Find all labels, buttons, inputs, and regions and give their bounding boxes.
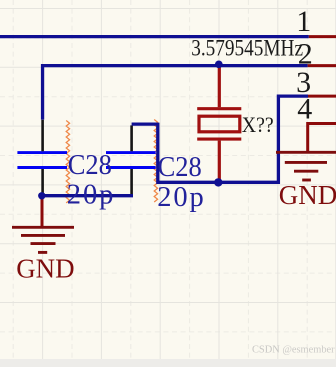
- svg-text:C28: C28: [158, 150, 202, 182]
- svg-text:GND: GND: [16, 253, 74, 283]
- svg-text:3.579545MHz: 3.579545MHz: [191, 35, 303, 61]
- svg-text:20p: 20p: [157, 182, 205, 213]
- svg-text:GND: GND: [279, 180, 336, 210]
- svg-text:X??: X??: [242, 112, 274, 137]
- svg-text:C28: C28: [68, 148, 112, 180]
- svg-text:CSDN @esmember: CSDN @esmember: [252, 345, 335, 356]
- svg-text:20p: 20p: [67, 180, 115, 211]
- svg-text:1: 1: [296, 5, 311, 38]
- svg-text:4: 4: [297, 93, 312, 126]
